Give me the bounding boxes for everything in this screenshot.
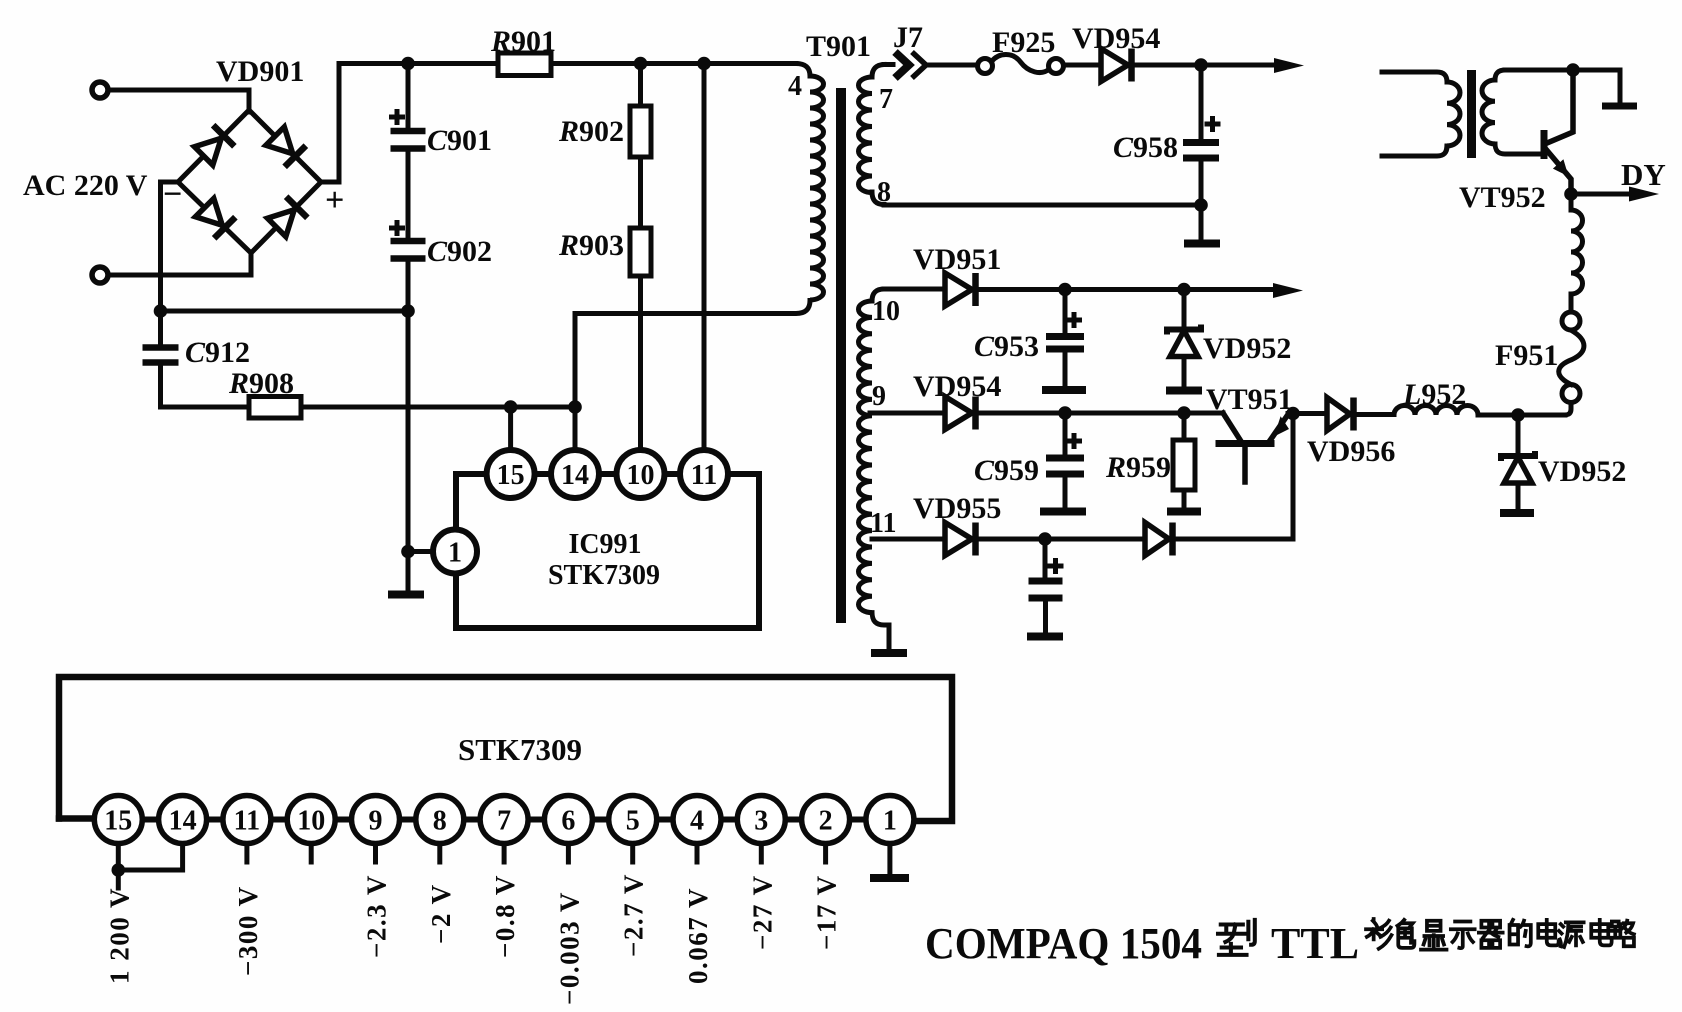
wire: L952 to F951 corner <box>1478 413 1565 418</box>
svg-text:11: 11 <box>234 805 260 836</box>
common bar below R959 <box>1167 508 1201 516</box>
svg-text:11: 11 <box>870 508 896 539</box>
junction top bus / C901 branch <box>401 57 415 71</box>
junction pinout pins 15/14 <box>112 863 126 877</box>
plus of C959 <box>1066 433 1082 449</box>
svg-text:10: 10 <box>627 460 655 491</box>
svg-text:C959: C959 <box>974 454 1039 487</box>
resistor R901 <box>498 53 551 76</box>
transformer T901 secondary winding pins 10-9-11 <box>872 289 884 301</box>
ground below IC991 pin 1 node <box>388 591 424 599</box>
junction L952 / VD952 branch <box>1511 408 1525 422</box>
plus of C953 <box>1066 312 1082 328</box>
transformer T901 primary winding pin4 <box>810 76 824 300</box>
wire: pinout pin5 lead <box>630 844 635 863</box>
wire: C912 to R908 <box>161 365 250 407</box>
capacitor C958 <box>1183 143 1219 159</box>
wire: pinout pin6 lead <box>566 844 571 863</box>
svg-text:COMPAQ 1504: COMPAQ 1504 <box>925 919 1202 968</box>
STK7309 pinout pin 14 <box>159 796 207 844</box>
resistor R959 <box>1173 440 1195 490</box>
wire: pinout pin8 lead <box>437 844 442 863</box>
svg-text:VT952: VT952 <box>1459 181 1546 214</box>
svg-text:10: 10 <box>872 296 900 327</box>
svg-text:STK7309: STK7309 <box>548 560 660 591</box>
bridge diode VD901 bottom-right <box>266 197 307 238</box>
junction C958 bottom / pin8 return <box>1194 198 1208 212</box>
inductor L952 <box>1394 406 1478 416</box>
wire: R903 down to IC pin 10 <box>638 276 643 451</box>
svg-text:11: 11 <box>691 460 717 491</box>
bridge diode VD901 bottom-left <box>194 197 235 238</box>
svg-text:VD956: VD956 <box>1307 435 1395 468</box>
wire: emitter to DY arrow <box>1571 192 1632 197</box>
wire: lower AC lead to bridge bottom vertex <box>108 253 251 275</box>
svg-text:7: 7 <box>879 84 893 115</box>
wire: junction to chassis bar <box>1573 70 1620 101</box>
junction C958 top <box>1194 58 1208 72</box>
transformer T901 secondary winding pins 7-8 <box>872 65 884 78</box>
svg-text:15: 15 <box>104 805 132 836</box>
wire: T901 bottom to ground <box>887 625 892 649</box>
wire: zener to end bar <box>1182 357 1187 385</box>
STK7309 pinout pin 6 <box>544 796 592 844</box>
caption character cai3 <box>1366 919 1392 949</box>
STK7309 pinout pin 7 <box>480 796 528 844</box>
wire: series diode up to rail9 junction <box>1176 414 1293 540</box>
zener diode VD952 (lower) <box>1501 451 1535 483</box>
wire: R959 to end bar <box>1182 490 1187 506</box>
wire: junction down to C912 <box>158 311 163 344</box>
transistor VT952 <box>1541 70 1574 194</box>
svg-text:R903: R903 <box>558 229 624 262</box>
wire: pin 3-pin 2 link <box>785 817 801 823</box>
wire: pinout pin7 lead <box>502 844 507 863</box>
wire: VD951 to output arrow rail 10 <box>978 287 1278 292</box>
wire: C901 to C902 <box>406 151 411 238</box>
svg-text:15: 15 <box>497 460 525 491</box>
wire: pinout pin1 lead <box>887 844 892 873</box>
capacitor C902 <box>391 241 426 259</box>
wire: pin14-pin10 link <box>599 471 617 477</box>
bridge diode VD901 top-right <box>264 125 305 166</box>
wire: junction down to ground <box>1199 205 1204 240</box>
plus of C902 <box>389 220 405 236</box>
transistor VT951 <box>1219 413 1289 482</box>
caption character yuan2 <box>1559 922 1584 947</box>
common bar below VD952 <box>1166 387 1202 395</box>
series diode after VD955 <box>1145 523 1173 556</box>
svg-text:VT951: VT951 <box>1206 383 1293 416</box>
svg-text:F925: F925 <box>992 26 1055 59</box>
wire: junction down to IC pin 15 <box>508 407 513 451</box>
IC991 pin 15 <box>487 450 535 498</box>
fuse F951 with series coil <box>1559 194 1584 415</box>
wire: pin 9-pin 8 link <box>400 817 416 823</box>
svg-text:−27 V: −27 V <box>747 874 777 950</box>
output arrow top rail <box>1274 58 1304 73</box>
caption character lu4 <box>1611 921 1634 947</box>
svg-text:1 200 V: 1 200 V <box>105 887 135 984</box>
capacitor C959 <box>1046 458 1084 474</box>
wire: pin 15-pin 14 link <box>142 817 158 823</box>
wire: C959 to end bar <box>1063 477 1068 506</box>
caption character xian3 <box>1421 921 1447 950</box>
STK7309 pinout pin 11 <box>223 796 271 844</box>
wire: rail10 down to C953 <box>1063 290 1068 334</box>
plus of C958 <box>1205 116 1221 132</box>
resistor R903 <box>630 228 651 276</box>
diode VD956 <box>1327 398 1354 431</box>
junction at C912 top <box>154 304 168 318</box>
wire: bus down to C901 <box>406 64 411 129</box>
junction rail11 / filter cap <box>1038 532 1052 546</box>
svg-text:IC991: IC991 <box>568 529 641 560</box>
wire: R902 to R903 <box>638 157 643 228</box>
wire: pin11 to VD955 <box>872 537 944 542</box>
svg-text:0.067 V: 0.067 V <box>683 887 713 984</box>
common bar below C953 <box>1042 386 1086 394</box>
STK7309 pinout pin 4 <box>673 796 721 844</box>
wire: junction down to C958 <box>1199 65 1204 139</box>
wire: bridge minus vertex down to negative bus <box>161 182 179 311</box>
wire: junction down to lower VD952 <box>1516 415 1521 452</box>
capacitor C901 <box>391 131 426 149</box>
junction flyback secondary / VT952 collector <box>1566 63 1580 77</box>
wire: junction down to filter cap <box>1043 539 1048 577</box>
wire: pinout pin3 lead <box>759 844 764 863</box>
wire: pin 7-pin 6 link <box>528 817 544 823</box>
wire: rail9 down to R959 <box>1182 413 1187 440</box>
wire: pin 5-pin 4 link <box>657 817 673 823</box>
STK7309 pinout pin 9 <box>352 796 400 844</box>
svg-text:10: 10 <box>297 805 325 836</box>
wire: pin 2-pin 1 link <box>850 817 866 823</box>
wire: rail9 junction to VD956 <box>1293 411 1327 416</box>
diode VD951 <box>945 273 976 306</box>
caption character dian4a <box>1538 920 1558 946</box>
wire: rail10 down to zener VD952 <box>1182 290 1187 326</box>
wire: pin 11-pin 10 link <box>271 817 287 823</box>
IC991 pin 10 <box>617 450 665 498</box>
svg-text:−0.003 V: −0.003 V <box>554 891 584 1005</box>
wire: C953 to end bar <box>1063 352 1068 385</box>
wire: pin 14-pin 11 link <box>207 817 223 823</box>
bridge diode VD901 top-left <box>193 125 234 166</box>
svg-text:STK7309: STK7309 <box>458 732 582 767</box>
wire: pin15-pin14 link <box>535 471 551 477</box>
transformer T901 core <box>836 88 846 623</box>
caption character de5 <box>1510 920 1531 946</box>
svg-text:T901: T901 <box>806 30 871 63</box>
common bar below C959 <box>1040 508 1086 516</box>
STK7309 pinout pin 10 <box>287 796 335 844</box>
junction negative bus / capacitor chain <box>401 304 415 318</box>
wire: bus to R902 <box>638 64 643 107</box>
junction rail9 end <box>1286 407 1300 421</box>
wire: IC pin 14 up to primary return corner <box>573 314 578 451</box>
svg-text:4: 4 <box>788 71 802 102</box>
bridge rectifier VD901 diamond wires <box>178 110 321 253</box>
zener diode VD952 (upper) <box>1167 325 1201 357</box>
svg-text:R902: R902 <box>558 115 624 148</box>
svg-text:−2 V: −2 V <box>426 883 456 944</box>
wire: VD954 to VT951 <box>978 411 1223 416</box>
capacitor C953 <box>1046 337 1084 350</box>
IC IC991 STK7309 box <box>456 474 759 628</box>
caption character qi4 <box>1479 921 1503 948</box>
wire: pinout pin15 lead <box>116 844 121 865</box>
svg-text:5: 5 <box>626 805 640 836</box>
svg-text:9: 9 <box>369 805 383 836</box>
svg-text:VD954: VD954 <box>1072 22 1160 55</box>
svg-text:L952: L952 <box>1402 378 1466 411</box>
svg-text:C901: C901 <box>427 124 492 157</box>
caption character dian4b <box>1591 920 1611 946</box>
wire: VT951 emitter to rail junction <box>1288 411 1293 416</box>
junction top bus / IC pin 11 branch <box>697 57 711 71</box>
wire: negative bus down past R908 line to IC pin1 node <box>406 311 411 552</box>
IC991 pin 1 <box>433 530 477 574</box>
svg-text:2: 2 <box>819 805 833 836</box>
wire: upper AC lead to bridge top vertex <box>108 90 249 112</box>
output arrow rail 10 <box>1273 283 1303 298</box>
junction rail10 / VD952 <box>1177 283 1191 297</box>
wire: R908 to pin14/pin15 junctions <box>301 405 575 410</box>
wire: F925 to VD954 <box>1064 63 1100 68</box>
svg-text:14: 14 <box>169 805 197 836</box>
STK7309 pinout pin 5 <box>609 796 657 844</box>
wire: pin9 to VD954 <box>870 411 944 416</box>
svg-text:R959: R959 <box>1105 451 1171 484</box>
wire: top bus curve into T901 primary pin 4 <box>796 64 810 77</box>
svg-text:VD954: VD954 <box>913 370 1001 403</box>
junction rail9 / C959 <box>1058 406 1072 420</box>
junction VT952 emitter / DY <box>1564 187 1578 201</box>
svg-text:−2.3 V: −2.3 V <box>362 874 392 958</box>
svg-text:−300 V: −300 V <box>233 885 263 976</box>
common bar below filter capacitor <box>1027 633 1063 641</box>
diode VD954 (rail 9) <box>945 397 976 430</box>
svg-text:4: 4 <box>690 805 704 836</box>
wire: pin 10-pin 9 link <box>335 817 351 823</box>
svg-text:3: 3 <box>754 805 768 836</box>
caption character xing2 <box>1218 920 1255 955</box>
IC991 pin 14 <box>551 450 599 498</box>
svg-text:VD951: VD951 <box>913 243 1001 276</box>
svg-text:−17 V: −17 V <box>812 874 842 950</box>
wire: VD954 to output arrow <box>1135 63 1278 68</box>
connector J7 <box>895 52 926 78</box>
plus of filter capacitor <box>1048 558 1064 574</box>
IC991 pin 11 <box>680 450 728 498</box>
wire: top bus down to IC pin 11 <box>702 64 707 451</box>
arrow to DY <box>1629 187 1659 202</box>
resistor R902 <box>630 106 651 157</box>
common bar below lower VD952 <box>1500 509 1534 517</box>
svg-text:+: + <box>325 182 344 219</box>
svg-text:14: 14 <box>561 460 589 491</box>
flyback transformer secondary (right winding) <box>1482 70 1573 154</box>
svg-text:7: 7 <box>497 805 511 836</box>
flyback transformer core <box>1467 70 1476 158</box>
capacitor C912 <box>143 348 179 363</box>
svg-text:C953: C953 <box>974 330 1039 363</box>
wire: VD956 to L952 <box>1357 412 1395 417</box>
wire: pinout pin14 lead to pin15 node <box>124 844 183 871</box>
wire: lower VD952 to end bar <box>1516 484 1521 507</box>
junction R908 line / IC pin 15 <box>504 400 518 414</box>
wire: rail9 down to C959 <box>1063 413 1068 455</box>
junction pin1 branch <box>401 545 415 559</box>
wire: pin7 to J7 <box>884 62 893 67</box>
filter capacitor at pin 11 rail <box>1029 581 1063 598</box>
svg-text:C902: C902 <box>427 235 492 268</box>
wire: pin 6-pin 5 link <box>592 817 608 823</box>
STK7309 pinout pin 2 <box>802 796 850 844</box>
svg-text:TTL: TTL <box>1271 919 1359 968</box>
svg-text:−0.8 V: −0.8 V <box>490 874 520 958</box>
caption character shi4 <box>1451 922 1475 949</box>
junction rail10 / C953 <box>1058 283 1072 297</box>
wire: filter cap to end bar <box>1043 601 1048 631</box>
wire: pin 8 return line <box>884 203 1201 208</box>
wire: pin 8-pin 7 link <box>464 817 480 823</box>
caption character se4 <box>1397 920 1414 948</box>
svg-text:AC 220 V: AC 220 V <box>23 169 148 202</box>
svg-text:−2.7 V: −2.7 V <box>619 873 649 957</box>
fuse F925 <box>978 55 1064 74</box>
junction top bus / R902 branch <box>634 57 648 71</box>
flyback transformer primary (left winding) <box>1382 72 1460 156</box>
svg-text:R908: R908 <box>228 367 294 400</box>
STK7309 pinout pin 3 <box>737 796 785 844</box>
AC input upper terminal <box>92 82 108 98</box>
svg-text:R901: R901 <box>490 25 556 58</box>
wire: box edge to pin 15 <box>59 815 95 822</box>
wire: pinout pin10 lead <box>309 844 314 863</box>
wire: C958 to pin8 line <box>1199 161 1204 205</box>
STK7309 pinout box <box>59 677 952 821</box>
wire: negative bus to C901/C902 junction <box>161 309 409 314</box>
wire: pinout pin11 lead <box>244 844 249 863</box>
wire: J7 to fuse F925 <box>926 63 978 68</box>
wire: pin10-pin11 link <box>665 471 681 477</box>
STK7309 pinout pin 1 <box>866 796 914 844</box>
wire: junction down to ground <box>406 552 411 591</box>
ground below pinout pin 1 <box>870 874 909 882</box>
svg-text:F951: F951 <box>1495 339 1558 372</box>
wire: primary return line to T901 pin4 bottom <box>575 301 810 314</box>
wire: C902 to negative bus <box>406 261 411 311</box>
STK7309 pinout pin 8 <box>416 796 464 844</box>
wire: pinout pin9 lead <box>373 844 378 863</box>
wire: bridge plus vertex up to +310V bus <box>321 64 796 183</box>
wire: pin10 to VD951 <box>884 287 944 292</box>
diode VD955 <box>945 523 976 556</box>
ground below C958 <box>1184 240 1220 248</box>
wire: VD955 to series diode <box>978 537 1141 542</box>
diode VD954 (top rail) <box>1101 49 1132 82</box>
wire: pin 4-pin 3 link <box>721 817 737 823</box>
resistor R908 <box>249 397 301 419</box>
wire: pinout pin4 lead <box>695 844 700 863</box>
svg-text:1: 1 <box>448 537 462 568</box>
svg-text:9: 9 <box>872 381 886 412</box>
svg-text:C958: C958 <box>1113 131 1178 164</box>
STK7309 pinout pin 15 <box>94 796 142 844</box>
wire: junction to pin 1 <box>408 549 433 554</box>
svg-text:VD955: VD955 <box>913 492 1001 525</box>
svg-text:J7: J7 <box>893 21 923 54</box>
wire: junction stub to 1200V label <box>116 870 121 888</box>
svg-text:6: 6 <box>561 805 575 836</box>
junction rail9 / R959 <box>1177 406 1191 420</box>
plus of C901 <box>389 109 405 125</box>
svg-text:C912: C912 <box>185 336 250 369</box>
AC input lower terminal <box>92 267 108 283</box>
chassis bar top right <box>1602 103 1637 110</box>
svg-text:VD901: VD901 <box>216 55 304 88</box>
svg-text:8: 8 <box>433 805 447 836</box>
svg-text:VD952: VD952 <box>1203 332 1291 365</box>
ground of T901 secondary <box>871 649 907 657</box>
svg-text:VD952: VD952 <box>1538 455 1626 488</box>
junction R908 line / IC pin 14 / primary return <box>568 400 582 414</box>
svg-text:1: 1 <box>883 805 897 836</box>
wire: pinout pin2 lead <box>823 844 828 863</box>
svg-text:DY: DY <box>1621 157 1666 192</box>
